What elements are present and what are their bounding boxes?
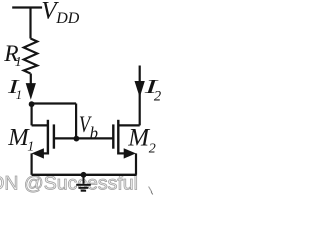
wire resistor to I1 arrow: [30, 74, 32, 87]
wire I2 to M2 drain: [139, 66, 141, 126]
svg-text:2: 2: [154, 88, 161, 104]
wire I1 node to M1 drain: [31, 104, 33, 126]
svg-text:2: 2: [149, 141, 156, 156]
gate wire M1 to M2: [54, 137, 113, 139]
power rail VDD: [12, 6, 42, 8]
svg-text:M: M: [127, 125, 150, 152]
transistor M2: [113, 120, 139, 159]
wire VDD rail to resistor: [29, 8, 31, 39]
label M1: [7, 124, 34, 155]
resistor R1: [24, 39, 38, 74]
watermark CSDN @Successful: [0, 172, 138, 194]
cursor mark bottom right: [149, 187, 152, 192]
ground symbol: [76, 175, 91, 191]
transistor M1: [32, 120, 54, 159]
label VDD: [41, 0, 79, 27]
label M2: [127, 125, 156, 157]
wire I1 node to gate branch (horizontal): [32, 102, 77, 104]
svg-text:1: 1: [16, 88, 22, 102]
current arrow I1: [26, 83, 36, 100]
bottom rail: [32, 174, 137, 176]
label Vb: [79, 111, 98, 142]
ground junction dot: [81, 172, 87, 178]
svg-text:1: 1: [27, 140, 34, 155]
wire M2 source down: [135, 153, 137, 174]
svg-text:1: 1: [15, 55, 22, 70]
wire M1 source down: [31, 153, 33, 174]
node I1 junction dot: [29, 101, 35, 107]
label R1: [3, 41, 22, 70]
label I1: [7, 76, 22, 102]
node Vb junction dot: [74, 136, 80, 142]
svg-text:b: b: [90, 123, 98, 142]
label I2: [143, 76, 161, 104]
svg-text:DD: DD: [55, 10, 80, 27]
current arrow I2: [135, 81, 145, 97]
wire down to Vb node: [75, 104, 77, 139]
